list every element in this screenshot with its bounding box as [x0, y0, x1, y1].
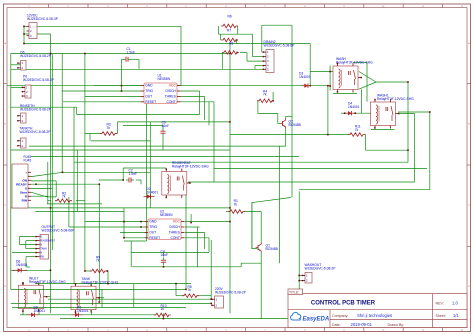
svg-text:1.5nF: 1.5nF	[127, 50, 135, 54]
relay INLET	[19, 277, 67, 312]
wire	[333, 93, 357, 95]
svg-text:Drawn By:: Drawn By:	[388, 323, 405, 327]
wire	[299, 274, 305, 276]
wire	[124, 240, 147, 242]
wire	[286, 115, 292, 117]
wire	[162, 125, 164, 129]
wire	[26, 256, 37, 258]
wire	[210, 240, 212, 299]
wire	[20, 314, 29, 316]
resistor R9|7k	[90, 255, 107, 273]
diode D5	[72, 306, 89, 318]
wire	[98, 184, 100, 302]
junction	[107, 283, 109, 285]
junction	[309, 85, 311, 87]
svg-text:RelayHT3F-12VDC-SHG: RelayHT3F-12VDC-SHG	[336, 60, 373, 64]
svg-text:R6: R6	[228, 15, 232, 19]
wire	[376, 81, 408, 83]
svg-text:2019-09-01: 2019-09-01	[351, 322, 373, 327]
junction	[23, 33, 25, 35]
wire	[261, 25, 263, 52]
wire	[272, 92, 274, 101]
wire	[101, 289, 103, 307]
svg-text:7k: 7k	[263, 93, 267, 97]
junction	[407, 149, 409, 151]
wire	[240, 52, 247, 54]
svg-text:NE555N: NE555N	[160, 213, 173, 217]
wire	[199, 91, 201, 115]
wire	[355, 112, 372, 114]
wire	[122, 168, 124, 180]
connector WASHOUT	[302, 263, 337, 283]
svg-text:N: N	[40, 243, 42, 247]
wire	[310, 85, 330, 87]
wire	[47, 203, 102, 205]
svg-text:1.5nF: 1.5nF	[129, 172, 137, 176]
wire	[26, 248, 37, 250]
wire	[240, 263, 242, 267]
wire	[429, 112, 431, 190]
wire	[12, 252, 37, 254]
svg-text:WJ2EDGVC-5.08-06P: WJ2EDGVC-5.08-06P	[42, 229, 76, 233]
junction	[123, 237, 125, 239]
junction	[121, 90, 123, 92]
svg-text:RINSEHEAT: RINSEHEAT	[40, 239, 55, 243]
wire	[221, 52, 223, 69]
wire	[138, 59, 140, 69]
wire	[11, 87, 25, 89]
wire	[162, 136, 164, 151]
wire	[11, 149, 230, 151]
junction	[99, 301, 101, 303]
wire	[76, 107, 78, 114]
EasyEDA logo	[291, 312, 330, 322]
wire	[123, 167, 166, 169]
svg-text:1k: 1k	[161, 307, 165, 311]
wire	[360, 89, 362, 113]
junction	[35, 183, 37, 185]
resistor R1|7k	[228, 199, 245, 213]
wire	[11, 106, 77, 108]
wire	[19, 237, 21, 245]
svg-text:RJ45: RJ45	[24, 158, 32, 162]
wire	[371, 129, 395, 131]
wire	[359, 82, 376, 89]
junction	[210, 303, 212, 305]
connector O6	[17, 51, 52, 71]
svg-text:RESET: RESET	[149, 236, 160, 240]
svg-text:1N4001: 1N4001	[299, 75, 311, 79]
wire	[255, 65, 264, 67]
connector RINSETH	[17, 104, 52, 123]
wire	[24, 43, 310, 45]
wire	[299, 189, 430, 191]
svg-text:TITLE:: TITLE:	[289, 290, 299, 294]
wire	[116, 133, 118, 135]
wire	[118, 121, 231, 123]
junction	[329, 85, 331, 87]
svg-text:WJ2EDGVC-5.08-2P: WJ2EDGVC-5.08-2P	[20, 54, 52, 58]
junction	[236, 39, 238, 41]
wire	[229, 44, 231, 314]
wire	[398, 113, 415, 115]
wire	[123, 208, 125, 238]
junction	[50, 207, 52, 209]
svg-text:RIN: RIN	[22, 198, 28, 202]
connector DRAIN2	[263, 40, 296, 73]
capacitor C1	[123, 47, 135, 62]
resistor R10|1k	[154, 304, 171, 317]
svg-text:VCC: VCC	[173, 220, 181, 224]
junction	[407, 81, 409, 83]
wire	[258, 112, 278, 114]
wire	[163, 266, 165, 267]
wire	[20, 244, 37, 246]
junction	[140, 221, 142, 223]
wire	[251, 203, 253, 249]
relay WASH	[333, 57, 373, 93]
wire	[75, 310, 77, 315]
svg-text:WJ2EDGVC-5.08-2P: WJ2EDGVC-5.08-2P	[20, 107, 52, 111]
svg-text:N: N	[40, 235, 42, 239]
wire	[26, 240, 37, 242]
wire	[132, 251, 209, 253]
wire	[181, 101, 215, 103]
wire	[24, 33, 51, 35]
wire	[100, 297, 104, 299]
junction	[163, 318, 165, 320]
junction	[23, 26, 25, 28]
wire	[133, 284, 135, 308]
wire	[162, 313, 164, 318]
wire	[38, 284, 40, 286]
wire	[254, 66, 256, 70]
wire	[279, 146, 281, 263]
wire	[246, 53, 248, 62]
wire	[91, 140, 150, 142]
svg-text:BC548B: BC548B	[289, 123, 302, 127]
wire	[181, 90, 200, 92]
svg-text:7k: 7k	[188, 288, 192, 292]
wire	[253, 56, 264, 58]
junction	[190, 222, 192, 224]
wire	[208, 102, 210, 126]
junction	[123, 221, 125, 223]
wire	[175, 284, 177, 296]
resistor R2|7k	[55, 191, 72, 202]
resistor R8|	[222, 41, 239, 54]
wire	[85, 270, 91, 272]
wire	[60, 318, 299, 320]
wire	[91, 284, 93, 287]
wire	[327, 86, 329, 135]
wire	[61, 54, 63, 173]
wire	[75, 284, 77, 287]
junction	[327, 134, 329, 136]
svg-text:1N4001: 1N4001	[16, 263, 28, 267]
wire	[94, 85, 141, 87]
wire	[262, 24, 292, 26]
title block table	[288, 289, 467, 328]
wire	[25, 241, 27, 249]
wire	[85, 133, 102, 135]
wire	[218, 26, 220, 34]
wire	[22, 309, 24, 315]
wire	[197, 295, 211, 297]
diode D9	[28, 306, 46, 318]
junction	[229, 221, 231, 223]
wire	[366, 149, 408, 151]
junction	[185, 289, 187, 291]
wire	[51, 54, 53, 251]
wire	[31, 180, 56, 182]
wire	[197, 227, 199, 267]
wire	[208, 238, 210, 252]
svg-text:WJ2EDGVC-5.08-3P: WJ2EDGVC-5.08-3P	[23, 78, 55, 82]
svg-text:RelayHT3F-12VDC-SHG: RelayHT3F-12VDC-SHG	[29, 280, 66, 284]
wire	[48, 296, 51, 298]
diode D6	[12, 260, 28, 273]
svg-text:GND: GND	[145, 84, 153, 88]
wire	[163, 252, 165, 257]
wire	[181, 95, 205, 97]
wire	[185, 237, 209, 239]
junction	[50, 270, 52, 272]
op-amp/timer U1 NE555N	[141, 74, 181, 104]
svg-text:1N4001: 1N4001	[77, 309, 89, 313]
wire	[91, 310, 93, 315]
wire	[11, 269, 51, 271]
wire	[366, 63, 368, 102]
wire	[310, 71, 333, 73]
connector 220V	[211, 287, 247, 308]
junction	[99, 183, 101, 185]
svg-text:WJ2EDGVC-5.08-5P: WJ2EDGVC-5.08-5P	[264, 43, 296, 47]
svg-text:EasyEDA: EasyEDA	[303, 317, 330, 323]
wire	[353, 62, 367, 64]
wire	[180, 26, 182, 85]
wire	[214, 168, 427, 170]
wire	[35, 283, 191, 285]
wire	[176, 295, 184, 297]
wire	[31, 172, 63, 176]
svg-text:1N4001: 1N4001	[147, 190, 159, 194]
wire	[31, 192, 56, 197]
wire	[190, 214, 192, 222]
wire	[76, 200, 85, 202]
wire	[285, 129, 287, 147]
wire	[31, 188, 52, 190]
wire	[341, 112, 345, 114]
wire	[140, 180, 142, 184]
relay WASH1	[371, 94, 415, 129]
wire	[63, 101, 141, 103]
wire	[47, 162, 49, 204]
wire	[11, 53, 230, 55]
capacitor C2	[126, 169, 137, 183]
svg-text:7k: 7k	[96, 259, 100, 263]
diode D4	[345, 102, 360, 116]
wire	[132, 266, 242, 268]
transistor Q1	[256, 243, 279, 253]
junction	[140, 226, 142, 228]
capacitor C4	[161, 250, 169, 266]
svg-text:DISCH: DISCH	[166, 89, 177, 93]
wire	[252, 198, 291, 249]
junction	[84, 53, 86, 55]
wire	[220, 34, 222, 40]
svg-text:7k: 7k	[107, 126, 111, 130]
connector 12VDC	[27, 14, 59, 39]
wire	[121, 59, 123, 91]
wire	[11, 288, 186, 290]
svg-text:TRIG: TRIG	[149, 225, 157, 229]
wire	[11, 302, 211, 304]
wire	[122, 58, 125, 60]
wire	[124, 237, 145, 239]
wire	[185, 195, 187, 289]
wire	[48, 200, 51, 202]
wire	[237, 26, 239, 34]
wire	[204, 96, 206, 120]
svg-text:THRES: THRES	[169, 231, 181, 235]
junction	[122, 179, 124, 181]
wire	[277, 113, 279, 123]
svg-text:1N4001: 1N4001	[348, 105, 360, 109]
op-amp/timer U2 NE555N	[145, 210, 185, 240]
resistor R3|7k	[100, 123, 117, 136]
svg-text:WJ2EDGVC-5.08-2P: WJ2EDGVC-5.08-2P	[20, 130, 52, 134]
svg-text:1N4001: 1N4001	[34, 309, 46, 313]
svg-text:THRES: THRES	[165, 95, 177, 99]
svg-text:R8: R8	[229, 41, 233, 45]
wire	[146, 104, 148, 242]
wire	[149, 122, 151, 208]
wire	[291, 25, 293, 197]
svg-text:TRIG: TRIG	[145, 89, 153, 93]
wire	[398, 111, 430, 113]
svg-text:1/1: 1/1	[453, 313, 459, 318]
diode D2	[144, 187, 159, 199]
svg-text:TANK: TANK	[40, 247, 47, 251]
transistor Q2	[280, 119, 302, 129]
wire	[329, 66, 331, 91]
wire	[38, 314, 73, 316]
junction	[329, 71, 331, 73]
wire	[219, 33, 253, 35]
connector P6	[22, 75, 55, 99]
connector OUTPUT	[35, 225, 75, 259]
junction	[23, 43, 25, 45]
wire	[77, 114, 200, 116]
wire	[25, 269, 28, 271]
junction	[84, 270, 86, 272]
wire	[10, 54, 12, 290]
connector TANKTH	[17, 127, 51, 149]
wire	[365, 135, 367, 151]
junction	[298, 275, 300, 277]
wire	[359, 72, 376, 83]
wire	[69, 226, 145, 228]
wire	[35, 211, 124, 213]
junction	[163, 266, 165, 268]
wire	[278, 123, 280, 125]
wire	[262, 51, 264, 53]
junction	[229, 207, 231, 209]
svg-text:10uF: 10uF	[161, 253, 169, 257]
border row ticks left and right	[4, 84, 471, 247]
diode D3	[299, 72, 311, 88]
junction	[272, 100, 274, 102]
wire	[25, 257, 27, 267]
capacitor C3	[161, 121, 170, 137]
svg-text:DISCH: DISCH	[170, 225, 181, 229]
wire	[285, 116, 287, 118]
wire	[260, 212, 262, 243]
relay TANK	[71, 277, 119, 313]
wire	[185, 221, 230, 223]
junction	[121, 85, 123, 87]
wire	[230, 134, 349, 136]
wire	[99, 179, 123, 181]
wire	[89, 134, 91, 141]
wire	[74, 161, 408, 163]
svg-text:1.0: 1.0	[452, 301, 458, 306]
wire	[12, 307, 186, 309]
wire	[11, 68, 264, 70]
wire	[185, 231, 205, 233]
svg-text:7k: 7k	[234, 202, 238, 206]
wire	[55, 181, 57, 197]
svg-text:OUT: OUT	[145, 95, 152, 99]
wire	[31, 183, 99, 185]
wire	[84, 54, 86, 272]
wire	[82, 314, 157, 316]
wire	[26, 266, 30, 268]
junction	[107, 270, 109, 272]
svg-text:RelayHT3F-12VDC-SHG: RelayHT3F-12VDC-SHG	[377, 97, 414, 101]
wire	[48, 298, 211, 300]
wire	[364, 134, 366, 136]
svg-text:Date:: Date:	[332, 323, 341, 327]
svg-text:OUT: OUT	[149, 231, 156, 235]
svg-text:10nF: 10nF	[162, 124, 170, 128]
wire	[85, 221, 145, 223]
svg-text:CONTROL PCB TIMER: CONTROL PCB TIMER	[311, 301, 376, 307]
svg-text:CONT: CONT	[166, 100, 175, 104]
connector RJ45 (PUMP)	[12, 155, 31, 208]
junction	[429, 111, 431, 113]
wire	[299, 280, 305, 282]
wire	[62, 90, 141, 92]
wire	[236, 40, 238, 44]
junction	[229, 121, 231, 123]
svg-text:WJ2EDGVC-5.08-2P: WJ2EDGVC-5.08-2P	[215, 290, 247, 294]
wire	[31, 195, 48, 197]
junction	[175, 283, 177, 285]
wire	[260, 253, 262, 319]
junction	[298, 280, 300, 282]
junction	[22, 283, 24, 285]
wire	[407, 82, 409, 162]
wire	[130, 58, 140, 60]
svg-text:GND: GND	[149, 220, 157, 224]
wire	[38, 309, 40, 315]
svg-text:7k: 7k	[355, 128, 359, 132]
wire	[106, 270, 109, 272]
wire	[130, 241, 132, 267]
resistor R6|	[221, 15, 238, 28]
